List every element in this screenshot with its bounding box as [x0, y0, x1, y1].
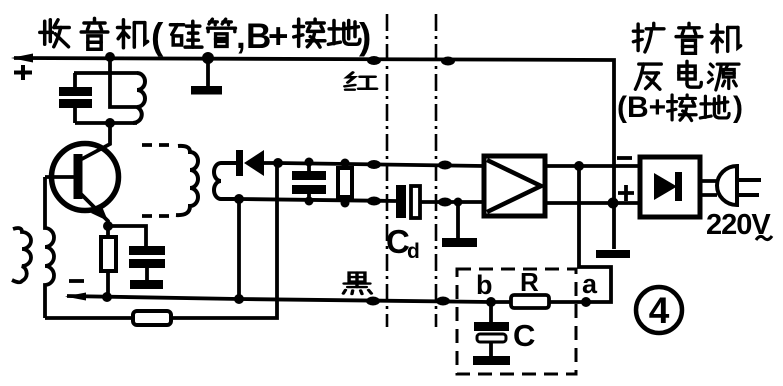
black wire (negative line): [67, 296, 586, 302]
svg-text:+: +: [268, 17, 288, 56]
vertical to black wire: [237, 199, 241, 299]
bottom rail: [45, 163, 277, 318]
svg-text:,: ,: [236, 17, 246, 56]
node emitter bottom: [102, 292, 112, 302]
bypass capacitor C2: [108, 226, 165, 289]
svg-text:b: b: [476, 270, 493, 300]
svg-text:4: 4: [649, 290, 670, 331]
rail connector dots: [367, 56, 381, 65]
terminal a: [581, 297, 591, 307]
node L3 bottom: [234, 194, 244, 204]
ground on rail: [191, 52, 222, 95]
transformer T1 primary (antenna coil): [12, 228, 31, 282]
label red 红: [345, 72, 377, 89]
svg-text:): ): [733, 91, 743, 124]
wire to terminal a: [579, 166, 611, 302]
svg-text:(: (: [151, 16, 164, 57]
oscillator coil L2: [176, 146, 198, 215]
amplifier U1: [484, 156, 545, 216]
svg-text:(B+: (B+: [617, 91, 666, 124]
title text 收音机(硅管,B+接地): [40, 16, 372, 57]
tone control dashed box: [457, 269, 576, 374]
svg-text:C: C: [513, 318, 535, 353]
svg-text:a: a: [582, 269, 598, 299]
tank coil L1: [133, 73, 145, 123]
plus label: [14, 65, 32, 80]
wire mid bottom: [239, 199, 396, 201]
capacitor C: [473, 302, 510, 365]
amp output wires: [545, 164, 640, 168]
transistor Q1: [45, 144, 119, 232]
amplifier title 扩音机反电源(B+接地): [617, 23, 743, 124]
coupling capacitor Cd: [396, 185, 484, 218]
node tank bottom: [105, 118, 115, 128]
label black 黑: [343, 273, 371, 295]
node rail-tank: [105, 52, 115, 62]
transformer T1 secondary (base coil): [45, 177, 54, 318]
ground at amp supply: [596, 250, 630, 258]
oscillator coil dashed leads: [142, 143, 176, 147]
svg-text:): ): [359, 16, 371, 57]
mains plug: [700, 166, 761, 205]
minus label psu: [617, 156, 632, 160]
figure number 4: [636, 287, 682, 333]
minus label: [69, 279, 84, 283]
power supply box U2: [640, 157, 700, 217]
plus label psu: [618, 185, 634, 201]
connector dots mid wires: [367, 160, 381, 169]
feedback resistor R2: [133, 311, 171, 325]
boundary dash-dot line 1: [386, 14, 389, 327]
svg-text:R: R: [520, 267, 539, 297]
detector diode D1: [236, 150, 278, 176]
boundary dash-dot line 2: [435, 14, 438, 327]
tank bottom wire: [75, 121, 137, 125]
collector wire: [80, 123, 110, 160]
tank capacitor C1: [59, 73, 92, 123]
rail left arrow: [11, 54, 33, 63]
emitter resistor R1: [101, 226, 116, 298]
terminal b: [486, 297, 496, 307]
output coil L3: [214, 163, 239, 199]
node diode out: [273, 158, 283, 168]
ground after boundary: [442, 198, 477, 248]
coil tap wire: [110, 57, 137, 107]
black wire arrow: [65, 293, 86, 301]
filter capacitor C3: [292, 162, 326, 206]
node C3 top: [305, 158, 314, 167]
wire mid top (to amp): [278, 163, 484, 166]
load resistor R3: [338, 159, 352, 208]
top supply rail: [14, 58, 614, 249]
svg-text:d: d: [407, 240, 420, 263]
LC tank top wire: [74, 71, 137, 75]
resistor R: [511, 295, 549, 308]
